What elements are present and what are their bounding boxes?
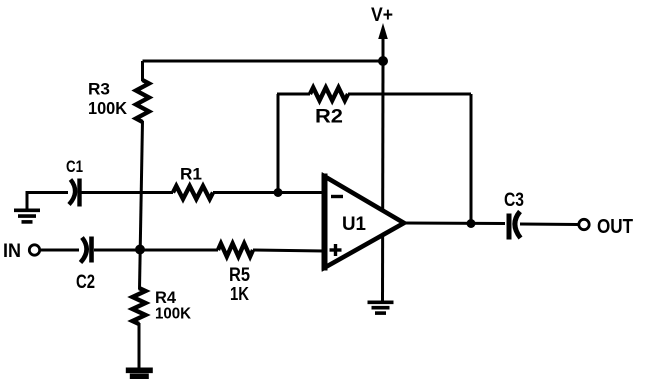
svg-text:100K: 100K <box>88 98 127 118</box>
svg-text:U1: U1 <box>342 214 366 235</box>
svg-text:C3: C3 <box>504 190 524 211</box>
svg-text:C2: C2 <box>76 272 95 293</box>
svg-text:IN: IN <box>3 241 21 262</box>
svg-text:OUT: OUT <box>597 216 633 238</box>
svg-text:R5: R5 <box>229 265 250 286</box>
svg-text:R2: R2 <box>315 107 343 128</box>
svg-text:100K: 100K <box>155 306 191 323</box>
svg-text:V+: V+ <box>371 5 393 26</box>
svg-text:R1: R1 <box>180 165 202 184</box>
svg-text:C1: C1 <box>66 158 83 176</box>
svg-text:R4: R4 <box>155 288 177 307</box>
svg-text:R3: R3 <box>88 80 110 99</box>
svg-text:1K: 1K <box>230 284 249 304</box>
